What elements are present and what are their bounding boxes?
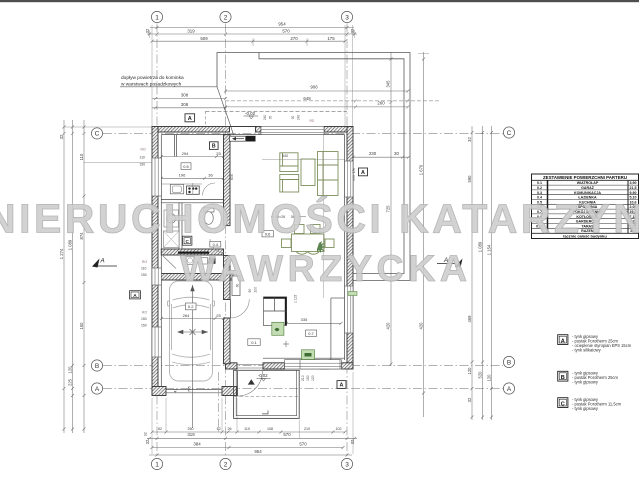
- svg-text:240: 240: [263, 115, 267, 121]
- axis A horizontal dash-dot line: [103, 388, 503, 390]
- svg-text:21,5: 21,5: [630, 186, 637, 190]
- vent arrow box at top wall: [230, 136, 246, 141]
- entrance porch outer wall: [234, 370, 300, 418]
- svg-text:260: 260: [377, 101, 385, 106]
- axis circle 3 top: [341, 11, 352, 22]
- svg-text:-0,02: -0,02: [258, 373, 268, 378]
- svg-text:26: 26: [228, 427, 232, 431]
- svg-text:32: 32: [145, 28, 150, 33]
- wall type marker A bottom right: [337, 381, 346, 389]
- svg-text:32: 32: [145, 439, 150, 444]
- svg-text:ZESTAWIENIE POWIERZCHNI PARTER: ZESTAWIENIE POWIERZCHNI PARTERU: [543, 175, 627, 180]
- green vent in right wall: [348, 292, 357, 296]
- svg-text:41: 41: [174, 389, 178, 393]
- leader line from note text to chimney: [120, 87, 234, 135]
- svg-text:C: C: [95, 131, 100, 138]
- right dim column lines: [471, 126, 473, 420]
- svg-text:705: 705: [188, 386, 192, 392]
- svg-text:954: 954: [254, 449, 262, 454]
- hall wardrobe column: [232, 276, 240, 296]
- coffee table: [301, 159, 315, 186]
- right wall window lower: [345, 286, 353, 333]
- svg-text:32: 32: [59, 134, 64, 139]
- level cross hall: [283, 341, 289, 347]
- porch corner step marks: [262, 411, 268, 414]
- svg-text:110: 110: [244, 427, 250, 431]
- kitchen window left wall: [152, 158, 161, 196]
- green stove box in fireplace: [272, 322, 284, 335]
- header separator: [532, 179, 639, 181]
- top dimension row 954: [150, 27, 354, 29]
- svg-text:B: B: [95, 363, 99, 370]
- axis B horizontal dash-dot line: [103, 365, 503, 367]
- svg-text:32: 32: [467, 137, 472, 142]
- svg-text:906: 906: [310, 85, 318, 90]
- bathroom toilet: [204, 208, 215, 213]
- interior wall kitchen block / garage: [152, 274, 233, 281]
- room label kitchen: [181, 163, 191, 170]
- svg-text:469: 469: [467, 315, 472, 323]
- rotated dimension texts: [59, 28, 492, 444]
- svg-text:A: A: [100, 258, 105, 265]
- left dim column lines: [63, 120, 65, 433]
- svg-text:196: 196: [179, 173, 186, 178]
- svg-text:C: C: [507, 130, 512, 137]
- svg-text:RO: RO: [142, 260, 147, 264]
- axis circle A left: [91, 383, 102, 394]
- svg-text:264: 264: [183, 313, 190, 318]
- living bottom wall window: [300, 360, 340, 369]
- wall type marker A top: [185, 114, 195, 122]
- bottom dimension row 319/570: [147, 437, 357, 439]
- dim line 230/30 right of wall: [353, 156, 409, 158]
- bath/utility partition wall hatched: [161, 249, 223, 255]
- kitchen stove: [187, 186, 200, 194]
- svg-text:420: 420: [386, 322, 391, 330]
- legend box B: [558, 371, 568, 381]
- svg-text:240: 240: [297, 115, 301, 121]
- svg-text:A: A: [361, 170, 365, 176]
- hall bottom exterior wall with entrance gap: [226, 363, 238, 369]
- plan-side vertical dim line 345/725/420: [390, 52, 392, 366]
- svg-text:GARAŻ: GARAŻ: [581, 186, 595, 190]
- svg-text:25: 25: [216, 151, 221, 156]
- interior wall axis2 upper part: [224, 135, 231, 226]
- svg-text:RO: RO: [142, 311, 147, 315]
- svg-text:1 115: 1 115: [294, 295, 298, 303]
- room label bathroom: [210, 241, 221, 247]
- kitchen tall cabinet partition: [173, 135, 175, 157]
- svg-text:509: 509: [200, 36, 208, 41]
- plan-side vertical dim line 1670/420: [423, 52, 425, 417]
- legend box C: [558, 398, 568, 408]
- top dimension row 509/270/175: [152, 40, 345, 42]
- svg-text:120: 120: [487, 374, 492, 382]
- svg-text:225: 225: [68, 378, 73, 386]
- bathroom washbasin: [164, 210, 179, 227]
- bathroom shower/tub: [164, 231, 180, 248]
- lintel bold line over bath partition: [178, 252, 209, 254]
- right wall inner face line: [344, 135, 346, 360]
- svg-text:384: 384: [193, 441, 201, 446]
- upper-floor / terrace inner outline: [259, 53, 404, 274]
- svg-text:570: 570: [282, 29, 290, 34]
- svg-text:3: 3: [345, 461, 349, 468]
- axis C horizontal dash-dot line: [103, 132, 503, 134]
- axis circle B left: [91, 360, 102, 371]
- svg-text:150: 150: [141, 273, 147, 277]
- sofa armchair 2: [280, 175, 299, 193]
- svg-text:A: A: [133, 293, 137, 299]
- svg-text:-0,02: -0,02: [245, 111, 256, 116]
- svg-text:A: A: [561, 338, 565, 344]
- svg-text:120: 120: [68, 366, 73, 374]
- kitchen dim 196/36: [162, 177, 224, 179]
- svg-text:9,90: 9,90: [630, 191, 637, 195]
- garage front wall left stub: [152, 387, 166, 396]
- svg-text:150: 150: [140, 162, 146, 166]
- garage front wall right stub: [222, 387, 237, 396]
- living room bottom exterior wall segments: [263, 363, 285, 369]
- svg-text:A: A: [507, 386, 512, 393]
- left short witness ties: [64, 126, 152, 128]
- washing machine in utility: [186, 257, 194, 265]
- top exterior wall hatched band segments: [152, 127, 230, 133]
- dashed roof line below garage: [218, 372, 220, 433]
- bath window left wall: [152, 268, 161, 285]
- left wall inner face line: [160, 135, 162, 396]
- dashed roof eaves line: [206, 110, 348, 112]
- room label garage: [186, 303, 197, 310]
- axis labels: [95, 14, 512, 468]
- svg-text:RO: RO: [141, 148, 146, 152]
- interior wall axis2 lower part: [224, 256, 231, 300]
- axis circle C right: [503, 127, 514, 138]
- svg-text:110: 110: [140, 156, 146, 160]
- room label hall: [248, 339, 260, 346]
- porch dashed canopy line: [234, 396, 299, 398]
- wall type marker B kitchen: [210, 142, 219, 150]
- niche partition lines bottom right of living: [331, 297, 345, 299]
- svg-text:570: 570: [299, 441, 307, 446]
- entrance door threshold lines: [237, 364, 263, 366]
- witness lines bottom: [152, 372, 353, 454]
- svg-text:32: 32: [467, 397, 472, 402]
- svg-text:108: 108: [267, 427, 273, 431]
- axis circle 1 top: [151, 11, 162, 22]
- svg-text:604: 604: [230, 174, 234, 180]
- svg-text:32: 32: [350, 439, 355, 444]
- green unit on living bottom wall: [302, 350, 315, 360]
- utility boiler: [209, 258, 216, 264]
- row lines: [532, 185, 639, 228]
- utility door diagonal: [163, 256, 176, 269]
- svg-text:0.3: 0.3: [537, 191, 542, 195]
- axis circle 1 bottom: [151, 458, 162, 469]
- top wall window: [261, 127, 324, 135]
- section arrow A right: [455, 259, 463, 268]
- terrace window in bottom wall: [285, 360, 321, 369]
- svg-text:3: 3: [345, 14, 349, 21]
- legend box A: [558, 335, 568, 345]
- svg-text:345: 345: [386, 80, 391, 88]
- svg-text:25: 25: [216, 313, 221, 318]
- svg-text:335: 335: [301, 317, 308, 322]
- dimension texts: [158, 21, 399, 454]
- sofa armchair 1: [280, 152, 338, 196]
- svg-text:32: 32: [350, 28, 355, 33]
- svg-text:0.1: 0.1: [251, 340, 257, 345]
- garage door lines: [166, 389, 222, 391]
- garage window left wall: [152, 327, 161, 357]
- svg-text:150: 150: [141, 317, 147, 321]
- svg-text:308: 308: [181, 93, 189, 98]
- axis circle 3 bottom: [341, 458, 352, 469]
- svg-text:A: A: [188, 116, 192, 122]
- svg-text:0.5: 0.5: [183, 164, 189, 169]
- section arrow A left: [92, 259, 100, 268]
- svg-text:294: 294: [182, 151, 189, 156]
- svg-text:B: B: [507, 359, 511, 366]
- bottom dimension row 384/570: [152, 447, 343, 449]
- svg-text:- tynk gipsowy: - tynk gipsowy: [572, 406, 599, 411]
- kitchen sink cabinet: [170, 184, 183, 193]
- svg-text:w warstwach posadzkowych: w warstwach posadzkowych: [121, 82, 182, 88]
- svg-text:1 089: 1 089: [478, 241, 483, 252]
- axis circle B right: [503, 356, 514, 367]
- bottom dimension row 954: [149, 454, 352, 456]
- svg-text:A: A: [95, 386, 100, 393]
- svg-text:120: 120: [467, 367, 472, 375]
- plant beside table: [317, 241, 325, 253]
- upper-floor / terrace outer outline: [217, 53, 410, 281]
- svg-text:210: 210: [304, 427, 310, 431]
- svg-text:175: 175: [327, 36, 335, 41]
- room label dining left: [262, 231, 273, 237]
- svg-text:- tynk gipsowy: - tynk gipsowy: [572, 379, 599, 384]
- column lines: [547, 180, 549, 233]
- svg-text:210: 210: [301, 375, 305, 381]
- svg-text:1 154: 1 154: [487, 244, 492, 255]
- axis circle 2 top: [220, 11, 231, 22]
- axis 1 vertical dash-dot line: [156, 24, 158, 458]
- svg-text:270: 270: [290, 36, 298, 41]
- svg-text:150: 150: [306, 375, 310, 381]
- svg-text:dopływ powietrza do kominka: dopływ powietrza do kominka: [121, 75, 184, 81]
- svg-text:3,90: 3,90: [630, 181, 637, 185]
- kitchen door swing in axis2 wall: [210, 239, 224, 253]
- svg-text:C: C: [561, 401, 565, 407]
- svg-text:150: 150: [79, 322, 84, 330]
- axis circle C left: [91, 128, 102, 139]
- svg-text:0.7: 0.7: [308, 331, 314, 336]
- svg-text:0.1: 0.1: [537, 181, 542, 185]
- svg-text:230: 230: [369, 151, 377, 156]
- fireplace / chimney block: [264, 297, 287, 326]
- svg-text:590: 590: [467, 175, 472, 183]
- wall type marker A right: [359, 168, 368, 176]
- top wall inner face line: [162, 134, 345, 136]
- dashed dimension row 648 260: [225, 100, 440, 102]
- dimension row 308 upper: [152, 98, 226, 100]
- areas table frame: [532, 174, 639, 239]
- bottom dimension row small segments: [152, 431, 345, 433]
- living dim 335: [287, 322, 342, 324]
- top dimension row 319/570: [147, 33, 357, 35]
- entrance door leaf and swing arc: [238, 371, 263, 396]
- svg-text:420: 420: [418, 322, 423, 330]
- svg-text:min. 1%: min. 1%: [352, 167, 356, 181]
- dashed eaves connector: [205, 111, 207, 126]
- axis 3 vertical dash-dot line: [346, 24, 348, 458]
- right wall window upper: [345, 161, 353, 197]
- svg-text:110: 110: [79, 153, 84, 160]
- svg-text:32: 32: [144, 432, 148, 436]
- svg-text:KOMUNIKACJA: KOMUNIKACJA: [574, 191, 601, 195]
- svg-text:A: A: [340, 383, 344, 389]
- svg-text:- tynk silikatowy: - tynk silikatowy: [572, 347, 602, 352]
- black chimney box in top wall: [246, 136, 256, 142]
- svg-text:90: 90: [248, 289, 252, 293]
- svg-text:62: 62: [158, 427, 162, 431]
- garage door swing from hall: [231, 299, 250, 318]
- svg-text:B: B: [561, 375, 565, 381]
- left exterior wall hatched band: [152, 127, 158, 396]
- kitchen counter line: [161, 183, 202, 185]
- svg-text:WIATROŁAP: WIATROŁAP: [577, 181, 599, 185]
- svg-text:2: 2: [224, 461, 228, 468]
- axis 2 vertical dash-dot line: [225, 24, 227, 458]
- sofa couch: [318, 152, 339, 196]
- svg-text:1 670: 1 670: [418, 164, 423, 175]
- top dark border bar: [0, 0, 639, 2]
- dimension row 906: [226, 90, 409, 92]
- kitchen/bath partition wall: [161, 199, 223, 201]
- svg-text:1 274: 1 274: [59, 248, 64, 259]
- svg-text:RO: RO: [310, 119, 315, 123]
- wall type marker C bathroom: [183, 236, 192, 245]
- svg-text:36: 36: [208, 173, 213, 178]
- room label living: [306, 330, 317, 336]
- dining table: [282, 225, 335, 255]
- kitchen dim 294/25: [162, 156, 224, 158]
- car in garage: [168, 281, 215, 381]
- svg-text:1: 1: [155, 461, 159, 468]
- witness lines top: [150, 25, 355, 298]
- svg-text:120: 120: [311, 375, 315, 381]
- svg-text:WAWRZYCKA: WAWRZYCKA: [180, 247, 467, 289]
- axis circle 2 bottom: [220, 458, 231, 469]
- kitchen/bath door arc: [202, 183, 215, 196]
- dimension row right lower: [226, 106, 409, 108]
- svg-text:30: 30: [394, 151, 399, 156]
- svg-text:954: 954: [278, 21, 286, 26]
- bath internal partition: [179, 203, 182, 249]
- svg-text:B: B: [212, 144, 216, 150]
- svg-text:90: 90: [291, 116, 295, 120]
- svg-text:0.2: 0.2: [537, 186, 542, 190]
- svg-text:319: 319: [187, 29, 195, 34]
- svg-text:102: 102: [336, 427, 342, 431]
- svg-text:308: 308: [181, 102, 189, 107]
- svg-text:540: 540: [282, 154, 288, 158]
- svg-text:0.2: 0.2: [188, 304, 194, 309]
- svg-text:2: 2: [224, 14, 228, 21]
- svg-text:648: 648: [303, 96, 311, 101]
- svg-text:570: 570: [283, 432, 291, 437]
- svg-text:150: 150: [141, 324, 147, 328]
- garage center cross dimension: [178, 285, 208, 428]
- axis circle A right: [503, 383, 514, 394]
- right exterior wall hatched band: [347, 127, 353, 370]
- dimension row 308 lower: [152, 107, 226, 109]
- entrance porch inner wall line: [236, 370, 296, 415]
- svg-text:520: 520: [478, 371, 483, 379]
- svg-text:319: 319: [187, 432, 195, 437]
- garage dim row 264/25: [162, 318, 224, 320]
- svg-text:1: 1: [155, 14, 159, 21]
- entrance direction triangle: [248, 379, 255, 384]
- wall type marker A left: [130, 291, 141, 299]
- svg-text:110: 110: [141, 267, 147, 271]
- svg-text:35: 35: [269, 116, 273, 120]
